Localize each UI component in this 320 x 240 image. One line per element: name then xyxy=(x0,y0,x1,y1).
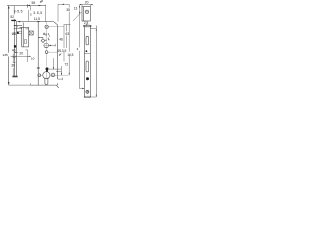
svg-text:46: 46 xyxy=(59,37,63,41)
sq8 square symbol xyxy=(43,33,44,35)
slot 2 xyxy=(86,61,89,72)
svg-text:20: 20 xyxy=(85,1,89,5)
dim 10 cluster xyxy=(26,50,28,62)
svg-text:Ø8: Ø8 xyxy=(12,32,16,36)
top right view xyxy=(82,7,90,21)
svg-text:55: 55 xyxy=(32,1,36,5)
follower v centre line xyxy=(45,22,47,25)
faceplate front view strip xyxy=(13,6,15,15)
svg-text:8: 8 xyxy=(45,33,47,37)
svg-text:10: 10 xyxy=(31,56,35,60)
filled circle xyxy=(86,77,89,80)
L ref at y79.1 xyxy=(58,78,63,80)
arrow 235 bottom xyxy=(8,82,10,85)
main case left edge xyxy=(37,22,39,86)
dim 11.5 line / case top xyxy=(17,21,53,23)
small circle right of pz xyxy=(51,73,55,77)
svg-text:18: 18 xyxy=(37,66,41,70)
latch bolt side view xyxy=(14,25,22,27)
20 dim xyxy=(80,4,93,6)
svg-text:Ø13,5: Ø13,5 xyxy=(57,49,66,53)
right 235 dim xyxy=(95,26,97,98)
faceplate bottom cap xyxy=(12,76,17,78)
case bottom xyxy=(31,84,57,86)
vertical line to pz xyxy=(46,56,48,67)
follower h centre line xyxy=(48,26,64,28)
dim line x53.4 xyxy=(52,58,54,69)
svg-text:52: 52 xyxy=(10,15,14,19)
circle r2.3 xyxy=(44,43,49,48)
circle with cross xyxy=(86,90,89,93)
svg-text:35: 35 xyxy=(66,8,70,12)
leader vertical x30.7 xyxy=(30,6,32,11)
deadbolt head dark xyxy=(17,32,19,34)
L ref line top xyxy=(58,3,69,5)
main case right edge xyxy=(57,25,59,79)
bottom ref line to 235 dim xyxy=(9,84,31,86)
small circle y52 xyxy=(45,51,48,54)
cylinder in side view xyxy=(25,40,27,44)
small circle left of pz xyxy=(38,74,41,77)
right dim lines xyxy=(63,25,65,48)
chamfer bottom right xyxy=(56,85,58,88)
lock case side view xyxy=(21,27,23,47)
dim 8 square line xyxy=(38,37,43,39)
top dimension line 55 xyxy=(7,5,46,7)
dimension line 235 vertical xyxy=(8,6,10,53)
arrow 55 left xyxy=(27,5,30,7)
leader arrows 13,5 xyxy=(59,53,62,56)
left small dim marks under faceplate xyxy=(14,51,19,53)
svg-text:16,5: 16,5 xyxy=(67,53,73,57)
big pz profile xyxy=(43,72,50,79)
spindle diamond xyxy=(41,39,45,43)
texts xyxy=(3,0,89,70)
small dark hole xyxy=(86,50,88,52)
arrow 235 top xyxy=(8,6,10,9)
svg-text:2,5: 2,5 xyxy=(84,21,89,25)
svg-text:235: 235 xyxy=(3,53,8,57)
follower circle xyxy=(45,25,48,28)
extension line x28.5 xyxy=(27,10,29,21)
tiny marks cluster xyxy=(48,34,49,35)
tick left xyxy=(26,4,28,8)
extension line x45.6 xyxy=(45,5,47,22)
top cap xyxy=(84,26,90,28)
pz opening dark on faceplate xyxy=(14,45,16,47)
svg-text:63: 63 xyxy=(66,32,70,36)
38 chain line xyxy=(12,54,14,63)
tick x30.3 xyxy=(29,83,31,85)
svg-text:3-5,5: 3-5,5 xyxy=(33,11,42,15)
svg-text:13: 13 xyxy=(74,7,78,11)
cross right of diamond xyxy=(45,39,46,41)
svg-text:20: 20 xyxy=(19,52,23,56)
follower square with X xyxy=(29,31,33,35)
svg-text:72: 72 xyxy=(65,62,69,66)
faceplate top cap xyxy=(11,20,16,21)
svg-text:11,5: 11,5 xyxy=(34,17,40,21)
leader diagonal xyxy=(73,12,81,21)
20 width dim line xyxy=(11,55,32,57)
slot 1 xyxy=(86,36,89,45)
svg-text:40: 40 xyxy=(12,49,16,53)
dark pz profile small xyxy=(46,67,49,70)
right faceplate view xyxy=(84,25,90,97)
case chamfer top right xyxy=(54,22,58,25)
svg-text:3-5,5: 3-5,5 xyxy=(14,9,23,13)
13 dim xyxy=(79,5,81,47)
arrow 55 right xyxy=(39,5,42,7)
svg-text:38: 38 xyxy=(11,63,15,67)
